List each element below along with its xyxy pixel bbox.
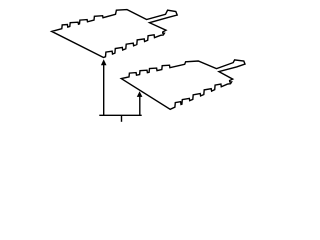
plate P2 (lower-right serrated plate with handle tab): [121, 60, 245, 109]
arrow 2 shaft: [139, 97, 141, 116]
arrowhead 1: [101, 59, 107, 65]
plate P1 (upper-left serrated plate with handle tab): [52, 10, 178, 58]
arrow 1 shaft: [103, 65, 105, 115]
bracket horizontal: [99, 114, 141, 116]
arrowhead 2: [137, 91, 143, 97]
bracket stub: [121, 115, 123, 122]
